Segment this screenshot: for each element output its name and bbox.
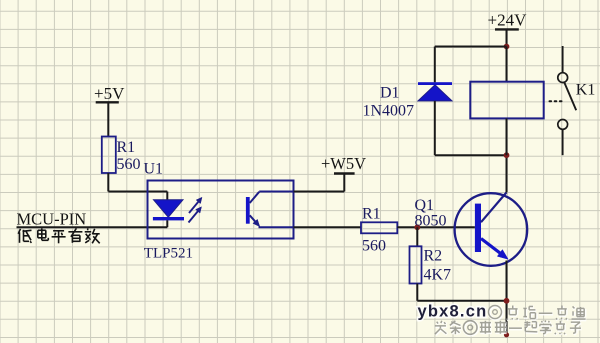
wire U1 collector to +W5V: [294, 174, 345, 192]
watermark line 2: [435, 320, 582, 335]
svg-text:ybx8.cn: ybx8.cn: [418, 303, 488, 321]
svg-text:560: 560: [362, 238, 386, 255]
power +24V: [488, 11, 528, 47]
svg-text:R2: R2: [424, 248, 443, 265]
transistor Q1 8050: [455, 192, 528, 265]
svg-text:8050: 8050: [415, 212, 447, 229]
svg-text:R1: R1: [362, 205, 381, 222]
wire Q1 emitter down: [506, 261, 508, 337]
U1 light arrows: [189, 197, 203, 222]
svg-text:D1: D1: [380, 85, 400, 102]
Q1 labels: [415, 197, 447, 229]
svg-text:+W5V: +W5V: [321, 154, 366, 173]
U1 part number TLP521: [144, 246, 193, 262]
svg-text:560: 560: [117, 156, 141, 173]
wire +24V to relay coil: [506, 47, 508, 82]
wire relay coil to lower node: [506, 118, 508, 155]
wire Q1 collector: [506, 155, 508, 192]
wire top branch to D1: [435, 47, 507, 83]
relay link dashes: [550, 100, 565, 102]
optocoupler U1 designator: [144, 161, 164, 178]
wire R1 to Q1 base: [397, 226, 475, 228]
wire D1 anode to lower node: [435, 101, 507, 155]
resistor R2 4K7: [410, 227, 452, 283]
svg-text:+24V: +24V: [488, 11, 528, 30]
wire R2 to emitter node: [417, 284, 506, 301]
junction +24V node: [504, 44, 510, 50]
U1 phototransistor: [246, 192, 294, 228]
power +5V: [94, 84, 125, 137]
junction lower node: [504, 152, 510, 158]
resistor R1 560 (horizontal): [361, 205, 397, 254]
wire end dot bottom: [504, 332, 509, 337]
relay coil: [470, 82, 543, 119]
diode D1 1N4007: [418, 82, 452, 101]
U1 LED: [153, 192, 184, 228]
svg-text:MCU-PIN: MCU-PIN: [17, 209, 87, 228]
watermark line 1: [489, 305, 587, 320]
svg-text:U1: U1: [144, 161, 164, 178]
svg-text:K1: K1: [576, 81, 596, 98]
power +W5V: [321, 154, 366, 173]
optocoupler U1 body TLP521: [148, 181, 294, 239]
junction R2 top: [414, 224, 420, 230]
D1 labels: [363, 85, 415, 120]
resistor R1 560 (vertical): [102, 137, 141, 174]
svg-text:TLP521: TLP521: [144, 246, 193, 262]
junction emitter/R2: [504, 298, 510, 304]
wire R1 to U1 pin1: [108, 173, 167, 192]
wire MCU-PIN to U1 pin2: [17, 226, 168, 228]
svg-text:1N4007: 1N4007: [363, 103, 415, 120]
wire U1 emitter to R1: [294, 226, 362, 228]
net label MCU-PIN: [17, 209, 87, 228]
svg-text:4K7: 4K7: [424, 267, 452, 284]
note 低电平有效: [18, 228, 100, 243]
svg-text:R1: R1: [117, 139, 136, 156]
svg-text:+5V: +5V: [94, 84, 125, 103]
watermark ybx8.cn: [418, 303, 488, 321]
K1 label: [576, 81, 596, 98]
relay contact K1: [558, 46, 576, 155]
